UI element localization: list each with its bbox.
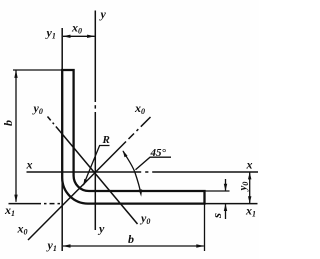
svg-text:y1: y1	[46, 238, 57, 253]
svg-text:x0: x0	[71, 21, 82, 36]
svg-text:y: y	[99, 7, 107, 21]
y0 dimension line right	[249, 172, 251, 204]
left b dimension line	[15, 71, 17, 202]
svg-text:y0: y0	[139, 211, 150, 226]
svg-text:y0: y0	[32, 101, 43, 116]
arrow R leader	[83, 179, 87, 186]
arrow b-left top	[14, 70, 17, 78]
angle profile outline	[62, 70, 204, 204]
arrow s upper (down)	[224, 184, 227, 191]
svg-text:45°: 45°	[150, 147, 167, 159]
x1 axis right	[205, 203, 258, 205]
svg-text:x0: x0	[17, 222, 28, 237]
right end extension down	[204, 203, 206, 251]
x0 axis	[28, 142, 126, 241]
arrow y0-dim top (up)	[248, 172, 251, 179]
arrow b-bottom right	[196, 244, 204, 247]
svg-text:x: x	[26, 157, 33, 171]
arrow 45 arc bottom	[139, 189, 142, 196]
top x0 dimension line	[63, 35, 95, 37]
45 degree arc	[123, 151, 141, 194]
arrow x0-dim left	[63, 35, 71, 38]
s dimension upper segment	[225, 179, 227, 191]
x1 axis left	[9, 203, 37, 205]
arrow 45 arc top	[123, 150, 128, 157]
arrow b-bottom left	[63, 244, 71, 247]
svg-text:s: s	[209, 213, 224, 219]
svg-text:R: R	[102, 134, 110, 146]
y axis	[94, 11, 96, 103]
s dimension lower segment	[225, 204, 227, 219]
svg-text:x0: x0	[134, 101, 145, 116]
bottom b dimension line	[63, 245, 204, 247]
top edge extension left	[13, 69, 62, 71]
45 label leader	[136, 157, 172, 170]
svg-text:b: b	[128, 232, 134, 246]
arrow s lower (up)	[224, 204, 227, 211]
svg-text:y1: y1	[45, 26, 56, 41]
svg-text:x1: x1	[4, 203, 15, 218]
arrow b-left bottom	[14, 195, 17, 203]
x axis	[27, 171, 142, 173]
svg-text:x: x	[246, 158, 253, 172]
svg-text:b: b	[1, 120, 15, 126]
arrow y0-dim bottom (down)	[248, 196, 251, 203]
svg-text:y: y	[97, 222, 105, 236]
svg-text:y0: y0	[237, 182, 250, 193]
y1 axis	[61, 28, 63, 251]
y0 axis	[48, 117, 61, 132]
R leader	[84, 146, 110, 185]
svg-text:x1: x1	[245, 204, 256, 219]
arrow x0-dim right	[87, 35, 95, 38]
top edge extension right	[205, 190, 230, 192]
